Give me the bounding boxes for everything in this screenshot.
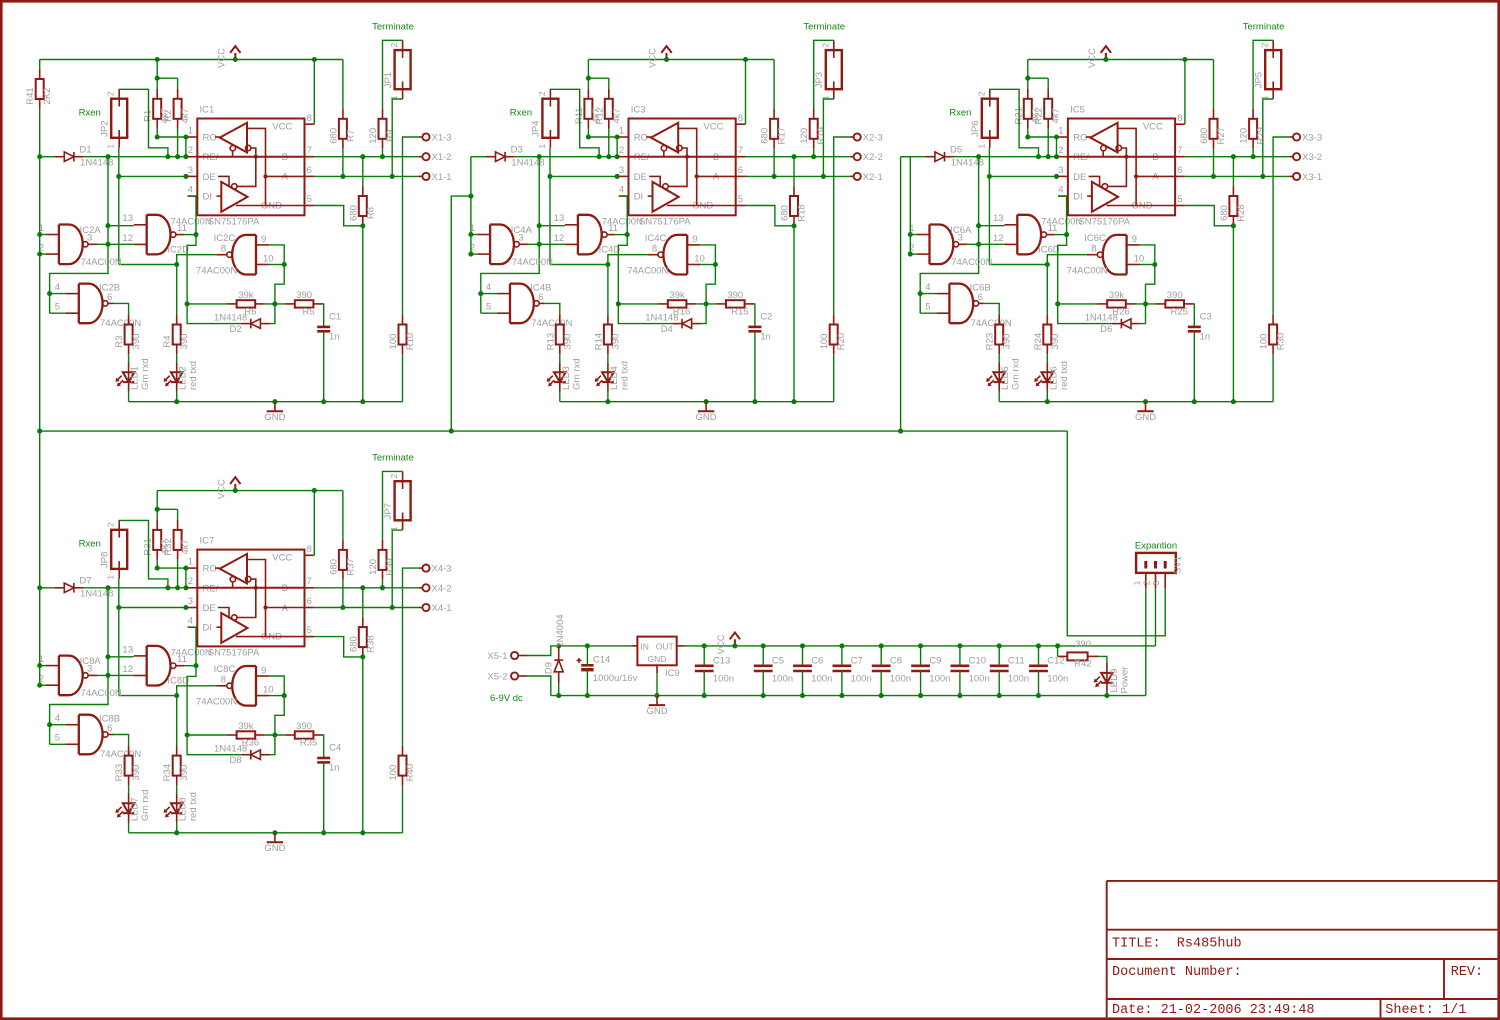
wire VCC output rail — [685, 588, 1156, 648]
wire R11 to RO — [586, 129, 591, 140]
svg-text:IC4A: IC4A — [511, 225, 533, 236]
svg-text:IC4B: IC4B — [530, 282, 551, 293]
svg-text:100n: 100n — [772, 673, 793, 684]
wire R31 to RO — [155, 560, 160, 571]
svg-text:10: 10 — [263, 685, 274, 696]
resistor R17 680 — [760, 109, 788, 149]
svg-text:LED4: LED4 — [609, 366, 620, 390]
svg-text:390: 390 — [562, 334, 573, 350]
resistor R41 2K2 — [25, 69, 53, 109]
wire RE-DE tie — [1054, 134, 1059, 156]
wire 39k line — [187, 734, 285, 736]
wire Rxen line to NAND inputs — [918, 157, 1005, 314]
wire R30 to gnd rail — [1272, 354, 1274, 401]
svg-text:D2: D2 — [230, 324, 242, 335]
resistor R36 39k — [227, 721, 265, 749]
resistor R11 4k7 — [574, 89, 602, 129]
power symbol VCC block 1 — [216, 46, 240, 68]
svg-text:X2-1: X2-1 — [863, 172, 883, 183]
svg-text:LED5: LED5 — [1000, 366, 1011, 390]
wire RO line — [1028, 136, 1058, 138]
wire JP6 pin1 to gate output net — [987, 148, 1050, 267]
svg-text:D4: D4 — [661, 324, 673, 335]
svg-text:IC8B: IC8B — [99, 714, 120, 725]
title block date — [1112, 1003, 1315, 1018]
resistor R5 390 — [285, 290, 323, 318]
connector X3-1 — [1289, 172, 1322, 183]
nand gate IC6A 74AC00N — [909, 223, 992, 268]
led LED3 green rxd — [547, 358, 583, 391]
wire B line — [1185, 154, 1289, 159]
connector X2-2 — [850, 152, 883, 163]
svg-text:red txd: red txd — [619, 361, 630, 390]
svg-text:680: 680 — [1199, 128, 1210, 144]
wire pin8 to VCC — [313, 491, 315, 556]
resistor R35 390 — [285, 721, 323, 749]
svg-text:74AC00N: 74AC00N — [1067, 265, 1108, 276]
svg-text:IC6A: IC6A — [950, 225, 972, 236]
svg-text:LED3: LED3 — [561, 366, 572, 390]
svg-text:Grn rxd: Grn rxd — [1011, 358, 1022, 390]
svg-text:100n: 100n — [969, 673, 990, 684]
svg-text:390: 390 — [727, 290, 743, 301]
svg-text:2: 2 — [106, 522, 116, 527]
wire IC4B out to R13 — [544, 303, 560, 314]
svg-text:LED6: LED6 — [1048, 366, 1059, 390]
svg-text:VCC: VCC — [716, 634, 727, 654]
svg-text:680: 680 — [348, 636, 359, 652]
jumper JP2 Rxen — [100, 89, 128, 149]
svg-text:R17: R17 — [777, 127, 788, 144]
nand gate IC6D 74AC00N — [993, 213, 1082, 255]
capacitor C10 100n — [951, 643, 990, 698]
wire R19 to B line — [811, 149, 816, 160]
svg-text:IC2A: IC2A — [80, 225, 102, 236]
wire VCC to R pullup A — [1213, 60, 1215, 110]
capacitor C1 1n — [317, 312, 341, 343]
svg-text:Terminate: Terminate — [1243, 22, 1285, 33]
svg-text:390: 390 — [179, 765, 190, 781]
svg-text:JP4: JP4 — [531, 121, 542, 137]
svg-text:1: 1 — [106, 575, 116, 580]
svg-text:GND: GND — [1135, 412, 1156, 423]
transceiver IC5 SN75176PA — [1058, 105, 1185, 228]
svg-text:100n: 100n — [811, 673, 832, 684]
svg-text:R38: R38 — [365, 635, 376, 652]
resistor R3 390 — [114, 315, 142, 355]
svg-text:X5-2: X5-2 — [487, 672, 507, 683]
svg-text:IC4D: IC4D — [599, 245, 621, 256]
svg-text:IC2C: IC2C — [214, 233, 236, 244]
svg-text:120: 120 — [799, 128, 810, 144]
svg-text:R37: R37 — [345, 558, 356, 575]
svg-text:X2-3: X2-3 — [863, 133, 883, 144]
svg-text:74AC00N: 74AC00N — [602, 216, 643, 227]
wire JP1 pin2 to R9 — [383, 40, 403, 109]
wire IC4C out to R14 — [607, 265, 609, 315]
resistor R27 680 — [1199, 109, 1227, 149]
wire R3 to LED1 — [128, 354, 130, 362]
capacitor C11 100n — [990, 643, 1029, 698]
svg-text:X3-1: X3-1 — [1302, 172, 1322, 183]
wire pullup feed — [155, 60, 178, 90]
svg-text:D6: D6 — [1100, 324, 1112, 335]
svg-text:100: 100 — [819, 334, 830, 350]
wire ground rail — [129, 399, 403, 404]
net label Terminate — [372, 22, 414, 33]
nand gate IC4C 74AC00N — [627, 233, 705, 277]
svg-text:R27: R27 — [1216, 127, 1227, 144]
svg-text:9: 9 — [261, 234, 266, 245]
svg-text:Terminate: Terminate — [372, 453, 414, 464]
wire RO line — [588, 136, 618, 138]
power symbol VCC out — [716, 633, 740, 655]
svg-text:X1-1: X1-1 — [432, 172, 452, 183]
wire R17 to A line — [772, 149, 777, 179]
nand gate IC4B 74AC00N — [486, 282, 573, 329]
jumper JP3 Terminate — [814, 40, 842, 100]
svg-text:5: 5 — [55, 302, 60, 313]
svg-text:74AC00N: 74AC00N — [100, 749, 141, 760]
svg-text:8: 8 — [221, 674, 226, 685]
wire R32 to RE — [175, 560, 180, 591]
capacitor C5 100n — [754, 643, 793, 698]
svg-text:DI: DI — [634, 192, 644, 203]
wire JP6 pin2 to RE net — [989, 89, 1041, 159]
svg-text:X2-2: X2-2 — [863, 152, 883, 163]
connector X5-2 — [487, 672, 527, 683]
svg-text:C10: C10 — [969, 655, 986, 666]
wire JP3 pin1 to A line — [821, 99, 834, 179]
svg-text:4: 4 — [188, 616, 193, 627]
svg-text:7: 7 — [1177, 145, 1182, 156]
resistor R4 390 — [162, 315, 190, 355]
transceiver IC7 SN75176PA — [188, 536, 315, 659]
svg-text:100: 100 — [388, 765, 399, 781]
resistor R32 4k7 — [163, 520, 191, 560]
svg-text:LED2: LED2 — [178, 366, 189, 390]
wire R27 to A line — [1211, 149, 1216, 179]
wire VCC rail block 1 — [40, 57, 343, 62]
nand gate IC4A 74AC00N — [470, 223, 553, 268]
wire IC4D out to DI — [615, 196, 630, 237]
svg-text:4: 4 — [619, 185, 624, 196]
wire C4 to gnd rail — [321, 762, 326, 835]
svg-text:VCC: VCC — [1143, 122, 1163, 133]
svg-text:R40: R40 — [405, 764, 416, 781]
capacitor C6 100n — [793, 643, 832, 698]
svg-text:74AC00N: 74AC00N — [627, 265, 668, 276]
wire JP7 pin2 to R39 — [383, 471, 403, 540]
svg-text:R13: R13 — [545, 333, 556, 350]
wire Rxen line to NAND inputs — [478, 157, 565, 314]
svg-text:2: 2 — [389, 42, 399, 47]
svg-text:1N4148: 1N4148 — [214, 744, 247, 755]
svg-text:C9: C9 — [929, 655, 941, 666]
capacitor C9 100n — [911, 643, 950, 698]
svg-text:1N4004: 1N4004 — [555, 614, 566, 647]
svg-text:6: 6 — [978, 292, 983, 303]
wire JP8 pin1 to gate output net — [116, 579, 179, 698]
svg-text:8: 8 — [307, 113, 312, 124]
wire Rxen line D3 — [471, 154, 620, 159]
svg-text:8: 8 — [652, 243, 657, 254]
svg-text:JP6: JP6 — [970, 121, 981, 137]
svg-text:IC6B: IC6B — [970, 282, 991, 293]
svg-text:9: 9 — [692, 234, 697, 245]
resistor R34 390 — [162, 746, 190, 786]
wire R9 to B line — [380, 149, 385, 160]
wire VCC rail block 3 — [1028, 57, 1214, 62]
svg-text:DI: DI — [1073, 192, 1083, 203]
svg-text:C7: C7 — [851, 655, 863, 666]
svg-text:390: 390 — [296, 290, 312, 301]
connector X2-1 — [850, 172, 883, 183]
svg-text:100n: 100n — [713, 673, 734, 684]
net label Rxen — [949, 108, 971, 119]
wire R15 to C2 — [753, 304, 756, 327]
wire VCC to R pullup A — [342, 60, 344, 110]
svg-text:74AC00N: 74AC00N — [971, 318, 1012, 329]
wire pin8 to VCC — [1184, 60, 1186, 125]
diode D3 1N4148 — [486, 145, 545, 169]
regulator IC9 — [632, 637, 685, 679]
wire IC8D out to R-C network — [185, 666, 196, 738]
wire LED2 to gnd rail — [174, 392, 179, 404]
svg-text:Sheet: 1/1: Sheet: 1/1 — [1385, 1003, 1466, 1018]
svg-text:R39: R39 — [385, 558, 396, 575]
svg-text:SN75176PA: SN75176PA — [1078, 216, 1130, 227]
svg-text:IC9: IC9 — [665, 668, 680, 679]
led LED4 red txd — [595, 361, 631, 392]
wire IC8B out to R33 — [113, 735, 129, 746]
svg-text:8: 8 — [1177, 113, 1182, 124]
wire 39k line — [187, 303, 285, 305]
svg-text:Power: Power — [1120, 667, 1131, 694]
svg-text:IN: IN — [640, 641, 649, 651]
svg-text:4: 4 — [1058, 185, 1063, 196]
svg-text:Rxen: Rxen — [949, 108, 971, 119]
wire Rxen line to NAND inputs — [47, 588, 134, 745]
svg-text:39k: 39k — [1109, 290, 1125, 301]
svg-text:LED9: LED9 — [1109, 669, 1120, 693]
svg-text:IC7: IC7 — [200, 536, 215, 547]
svg-text:C14: C14 — [593, 655, 610, 666]
net label Terminate — [372, 453, 414, 464]
svg-text:1: 1 — [976, 144, 986, 149]
wire JP7 pin1 to A line — [390, 530, 403, 610]
capacitor C13 100n — [695, 643, 734, 698]
svg-text:4: 4 — [486, 282, 491, 293]
svg-text:R28: R28 — [1236, 204, 1247, 221]
svg-text:74AC00N: 74AC00N — [196, 697, 237, 708]
svg-text:3: 3 — [619, 165, 624, 176]
resistor R37 680 — [328, 540, 356, 580]
svg-text:12: 12 — [554, 233, 565, 244]
wire RO line — [157, 567, 187, 569]
title block sheet — [1385, 1003, 1466, 1018]
wire DE line — [119, 605, 189, 610]
capacitor C4 1n — [317, 743, 341, 774]
svg-text:4k7: 4k7 — [611, 108, 622, 123]
svg-text:7: 7 — [738, 145, 743, 156]
svg-text:3: 3 — [188, 165, 193, 176]
svg-text:6-9V dc: 6-9V dc — [490, 693, 523, 704]
capacitor C7 100n — [833, 643, 872, 698]
diode D1 1N4148 — [55, 145, 114, 169]
svg-text:39k: 39k — [669, 290, 685, 301]
svg-text:74AC00N: 74AC00N — [171, 216, 212, 227]
svg-text:D5: D5 — [950, 145, 962, 156]
svg-text:R23: R23 — [985, 333, 996, 350]
capacitor C14 1000u/16v — [577, 646, 638, 698]
svg-text:2K2: 2K2 — [42, 88, 53, 105]
svg-text:13: 13 — [122, 213, 133, 224]
svg-text:100n: 100n — [929, 673, 950, 684]
wire pullup feed — [155, 491, 178, 521]
wire JP5 pin2 to R29 — [1253, 40, 1273, 109]
jumper JP5 Terminate — [1254, 40, 1282, 100]
svg-text:1N4148: 1N4148 — [214, 312, 247, 323]
svg-text:4k7: 4k7 — [180, 108, 191, 123]
wire pin8 to VCC — [745, 60, 747, 125]
resistor R33 390 — [114, 746, 142, 786]
svg-text:RO: RO — [203, 563, 217, 574]
svg-text:12: 12 — [993, 233, 1004, 244]
wire R14 to LED4 — [607, 354, 609, 362]
resistor R13 390 — [545, 315, 573, 355]
wire JP3 pin2 to R19 — [814, 40, 834, 109]
svg-text:C5: C5 — [772, 655, 784, 666]
resistor R16 39k — [658, 290, 696, 318]
svg-text:390: 390 — [610, 334, 621, 350]
resistor R24 390 — [1033, 315, 1061, 355]
svg-text:2: 2 — [537, 91, 547, 96]
svg-text:C8: C8 — [890, 655, 902, 666]
svg-text:C3: C3 — [1200, 312, 1212, 323]
svg-text:DE: DE — [203, 603, 216, 614]
wire D2 line — [187, 304, 275, 324]
svg-text:Grn rxd: Grn rxd — [140, 358, 151, 390]
svg-text:1: 1 — [1132, 580, 1142, 585]
svg-text:1: 1 — [188, 125, 193, 136]
wire IC2C output — [177, 255, 217, 265]
wire C1 to gnd rail — [321, 331, 326, 404]
svg-text:3: 3 — [1151, 580, 1161, 585]
net label Rxen — [510, 108, 532, 119]
wire A line — [1185, 175, 1289, 177]
svg-text:R22: R22 — [1034, 107, 1045, 124]
wire R40 to gnd rail — [402, 785, 404, 832]
wire IC8C output — [177, 686, 217, 696]
svg-text:GND: GND — [264, 843, 285, 854]
wire IC2C out to R4 — [176, 265, 178, 315]
svg-text:6: 6 — [538, 292, 543, 303]
svg-text:10: 10 — [1134, 253, 1145, 264]
svg-text:JP5: JP5 — [1254, 72, 1265, 88]
svg-text:1n: 1n — [760, 332, 771, 343]
capacitor C8 100n — [872, 643, 911, 698]
wire bus to block2 — [451, 194, 473, 432]
net label Terminate — [1243, 22, 1285, 33]
title block REV — [1451, 965, 1483, 980]
title block TITLE — [1112, 937, 1242, 952]
resistor R38 680 — [348, 617, 376, 657]
title block document number — [1112, 965, 1242, 980]
net label 6-9V dc — [490, 693, 523, 704]
nand gate IC2A 74AC00N — [39, 223, 122, 268]
svg-text:R12: R12 — [594, 107, 605, 124]
svg-text:R41: R41 — [25, 87, 36, 104]
wire D4 line — [618, 304, 706, 324]
nand gate IC8A 74AC00N — [39, 654, 122, 699]
resistor R1 4k7 — [143, 89, 171, 129]
wire IC4A inputs — [468, 232, 477, 257]
wire B line — [314, 154, 418, 159]
resistor R29 120 — [1239, 109, 1267, 149]
svg-text:D8: D8 — [230, 755, 242, 766]
svg-text:Rxen: Rxen — [510, 108, 532, 119]
wire R13 to LED3 — [559, 354, 561, 362]
svg-text:5: 5 — [738, 194, 743, 205]
svg-text:7: 7 — [307, 576, 312, 587]
wire R4 to LED2 — [176, 354, 178, 362]
svg-text:GND: GND — [264, 412, 285, 423]
svg-text:Grn rxd: Grn rxd — [571, 358, 582, 390]
nand gate IC2C 74AC00N — [196, 233, 274, 277]
nand gate IC8C 74AC00N — [196, 664, 274, 708]
wire R5 to C1 — [322, 304, 325, 327]
svg-text:R18: R18 — [797, 204, 808, 221]
connector X1-2 — [419, 152, 452, 163]
svg-text:C11: C11 — [1008, 655, 1025, 666]
svg-text:C2: C2 — [760, 312, 772, 323]
svg-text:X4-3: X4-3 — [432, 564, 452, 575]
svg-text:2: 2 — [188, 145, 193, 156]
svg-text:9: 9 — [1132, 234, 1137, 245]
svg-text:5: 5 — [486, 302, 491, 313]
wire R42 to LED9 — [1098, 656, 1107, 663]
wire RE-DE tie — [183, 134, 188, 156]
diode D8 1N4148 — [214, 744, 270, 767]
svg-text:Rxen: Rxen — [79, 108, 101, 119]
svg-text:JP3: JP3 — [814, 72, 825, 88]
svg-text:3: 3 — [188, 596, 193, 607]
wire R25 to C3 — [1193, 304, 1196, 327]
svg-text:D7: D7 — [79, 576, 91, 587]
svg-text:Terminate: Terminate — [372, 22, 414, 33]
nand gate IC2B 74AC00N — [55, 282, 142, 329]
svg-text:VCC: VCC — [272, 122, 292, 133]
svg-text:IC5: IC5 — [1070, 105, 1085, 116]
wire VCC to R42 — [1057, 646, 1059, 657]
capacitor C12 100n — [1029, 643, 1068, 698]
wire JP8 pin2 to RE net — [119, 520, 171, 590]
svg-text:680: 680 — [328, 559, 339, 575]
svg-text:REV:: REV: — [1451, 965, 1483, 980]
ground symbol — [1135, 402, 1156, 423]
svg-text:12: 12 — [122, 233, 133, 244]
svg-text:2: 2 — [1058, 145, 1063, 156]
svg-text:TITLE: Rs485hub: TITLE: Rs485hub — [1112, 937, 1242, 952]
svg-text:IC1: IC1 — [200, 105, 215, 116]
wire R24 to LED6 — [1046, 354, 1048, 362]
wire VCC rail block 4 — [157, 488, 343, 493]
wire R35 to C4 — [322, 735, 325, 758]
svg-text:4: 4 — [55, 713, 60, 724]
svg-text:RO: RO — [1073, 132, 1087, 143]
svg-text:1: 1 — [106, 144, 116, 149]
